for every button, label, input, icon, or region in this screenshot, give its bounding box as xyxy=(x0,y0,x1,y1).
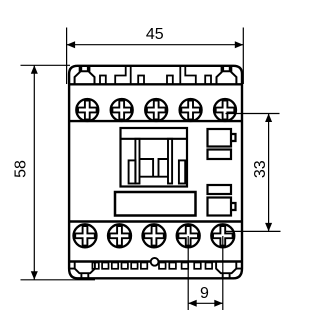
left clip dome xyxy=(75,66,95,85)
left mounting foot xyxy=(69,262,95,279)
top strip small square 4 xyxy=(205,76,211,85)
33 arrow bottom xyxy=(265,223,272,232)
9 ext line right xyxy=(222,236,224,310)
9 ext line left xyxy=(187,236,189,310)
nameplate rectangle xyxy=(115,192,196,216)
right aux contact bottom connector xyxy=(208,198,236,216)
58 ext line top xyxy=(21,64,71,66)
svg-text:58: 58 xyxy=(13,160,30,178)
svg-text:9: 9 xyxy=(200,285,209,302)
58 dim line xyxy=(33,65,35,279)
contact U shelf and post xyxy=(140,159,169,177)
dimension 58 xyxy=(21,65,96,279)
right mounting foot xyxy=(216,262,242,279)
screw T2 xyxy=(111,99,133,121)
top line under upper screws xyxy=(69,120,242,122)
right clip dome xyxy=(217,66,237,85)
bottom strip top line xyxy=(69,260,242,262)
window right inner bar xyxy=(168,139,172,184)
top strip small square 1 xyxy=(100,76,106,85)
dimension 45 xyxy=(67,28,244,85)
58 ext line bottom xyxy=(21,279,96,281)
screw T5 xyxy=(214,99,236,121)
line above lower screws xyxy=(69,220,242,222)
45 arrow right xyxy=(235,41,244,48)
svg-text:33: 33 xyxy=(252,160,269,178)
right step hook xyxy=(180,66,196,85)
screw B5 xyxy=(211,224,234,247)
58 arrow top xyxy=(31,65,38,74)
window outer rect xyxy=(121,128,188,187)
svg-text:45: 45 xyxy=(146,26,164,43)
58 arrow bottom xyxy=(31,271,38,280)
right aux contact top connector xyxy=(208,129,236,147)
bottom strip teeth xyxy=(92,263,212,269)
body outline xyxy=(69,66,242,278)
top strip bottom line xyxy=(69,83,242,85)
top screw row xyxy=(76,99,236,121)
left step hook xyxy=(115,66,131,85)
central window assembly xyxy=(121,128,188,187)
screw B2 xyxy=(108,224,131,247)
33 ext line bottom xyxy=(225,230,281,232)
screw T1 xyxy=(76,99,98,121)
window left inner bar xyxy=(135,139,139,184)
window right tab xyxy=(179,160,185,183)
45 arrow left xyxy=(67,41,76,48)
screw B3 xyxy=(143,224,166,247)
9 arrow left xyxy=(188,300,197,307)
right aux flat rect lower xyxy=(208,185,232,194)
bottom screw row xyxy=(74,224,235,247)
screw T4 xyxy=(180,99,202,121)
9 arrow right xyxy=(214,300,223,307)
33 arrow top xyxy=(265,114,272,123)
window left tab xyxy=(129,160,136,183)
top strip small square 3 xyxy=(167,76,173,85)
45 ext line right xyxy=(242,28,244,85)
top strip small square 2 xyxy=(138,76,144,85)
right aux flat rect upper xyxy=(208,150,232,160)
screw T3 xyxy=(145,99,167,121)
dimension 33 xyxy=(225,114,281,232)
window bottom line xyxy=(140,176,169,178)
33 dim line xyxy=(268,114,270,232)
45 dim line xyxy=(67,44,244,46)
window top band line xyxy=(121,138,188,140)
bottom center circle xyxy=(151,258,159,266)
45 ext line left xyxy=(66,28,68,85)
screw B1 xyxy=(74,224,97,247)
9 dim line xyxy=(188,302,223,304)
screw B4 xyxy=(177,224,200,247)
dimension 9 xyxy=(188,236,223,310)
33 ext line top xyxy=(226,113,280,115)
